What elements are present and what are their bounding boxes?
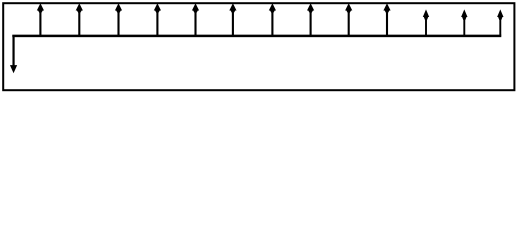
load arrow F4 (up) bbox=[154, 3, 161, 35]
load arrow F8 (up) bbox=[307, 3, 314, 35]
load arrow F13 (short, up, at line end) bbox=[497, 9, 503, 35]
beam line (horizontal wire) bbox=[12, 35, 501, 38]
reaction arrow R (downward, left end) bbox=[10, 35, 17, 73]
load arrow F2 (up) bbox=[76, 3, 83, 35]
load arrow F9 (up) bbox=[345, 3, 352, 35]
load arrow F3 (up) bbox=[115, 3, 122, 35]
load arrow F7 (up) bbox=[269, 3, 276, 35]
load arrow F12 (short, up) bbox=[461, 9, 467, 35]
load arrow F10 (up) bbox=[383, 3, 390, 35]
load arrow F1 (up) bbox=[37, 3, 44, 35]
load arrow F11 (short, up) bbox=[423, 9, 429, 35]
load arrow F6 (up) bbox=[229, 3, 236, 35]
load arrow F5 (up) bbox=[192, 3, 199, 35]
